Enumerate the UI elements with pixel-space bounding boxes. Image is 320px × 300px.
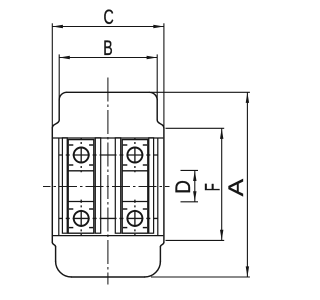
svg-text:D: D bbox=[172, 180, 195, 194]
svg-text:A: A bbox=[224, 179, 248, 196]
svg-text:F: F bbox=[200, 183, 224, 191]
svg-text:B: B bbox=[103, 36, 112, 60]
svg-text:C: C bbox=[103, 5, 113, 29]
